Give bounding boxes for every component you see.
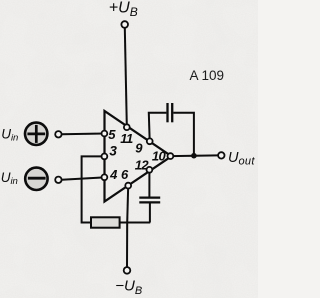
op-amp A109 triangle <box>105 111 172 202</box>
source Uin plus <box>25 123 47 145</box>
svg-text:11: 11 <box>120 131 133 146</box>
pin 6 <box>125 183 131 189</box>
pin 4 <box>102 174 108 180</box>
wire pin 12 to capacitor C2 <box>148 170 150 197</box>
capacitor C2 <box>139 198 160 203</box>
svg-text:4: 4 <box>109 167 118 182</box>
wire capacitor C2 to rail <box>149 203 151 222</box>
terminal +UB <box>121 21 128 28</box>
pin 11 <box>124 124 130 130</box>
wire pin 3 to resistor <box>82 156 105 222</box>
wire capacitor C1 to output node <box>173 113 194 156</box>
svg-text:3: 3 <box>109 143 117 158</box>
svg-text:12: 12 <box>135 157 150 172</box>
wire pin 10 to Uout <box>170 154 218 157</box>
svg-text:6: 6 <box>121 167 129 182</box>
wire pin 9 to capacitor C1 <box>149 113 167 142</box>
terminal Uin minus <box>55 177 61 183</box>
wire resistor to minus rail <box>120 222 151 224</box>
terminal -UB <box>124 267 131 274</box>
terminal Uin plus <box>55 131 61 137</box>
wire pin 6 to -UB <box>127 186 128 268</box>
pin 9 <box>147 138 153 144</box>
svg-text:10: 10 <box>152 149 167 164</box>
pin 3 <box>102 154 108 160</box>
svg-text:5: 5 <box>108 127 116 142</box>
svg-text:9: 9 <box>135 141 143 156</box>
wire +UB to pin 11 <box>125 28 127 126</box>
capacitor C1 <box>168 103 173 122</box>
pin 10 <box>168 153 174 159</box>
terminal Uout <box>218 152 224 158</box>
pin 12 <box>147 167 153 173</box>
pin 5 <box>102 131 108 137</box>
wire Uin plus to pin 5 <box>62 133 105 136</box>
source Uin minus <box>25 168 47 190</box>
junction output node <box>191 153 197 159</box>
wire Uin minus to pin 4 <box>62 177 105 179</box>
svg-text:A 109: A 109 <box>190 68 225 83</box>
resistor R1 <box>91 217 120 227</box>
